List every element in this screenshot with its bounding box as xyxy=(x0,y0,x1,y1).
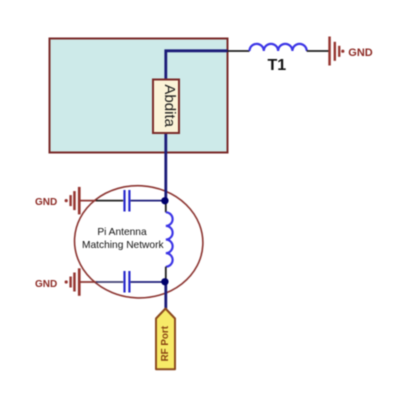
svg-text:T1: T1 xyxy=(268,57,287,74)
svg-text:RF Port: RF Port xyxy=(160,325,171,361)
svg-text:Matching Network: Matching Network xyxy=(82,240,164,251)
svg-text:GND: GND xyxy=(35,279,57,290)
svg-text:GND: GND xyxy=(348,47,373,59)
svg-text:GND: GND xyxy=(35,197,57,208)
svg-text:Pi Antenna: Pi Antenna xyxy=(97,227,147,238)
svg-text:Abdita: Abdita xyxy=(161,84,178,127)
